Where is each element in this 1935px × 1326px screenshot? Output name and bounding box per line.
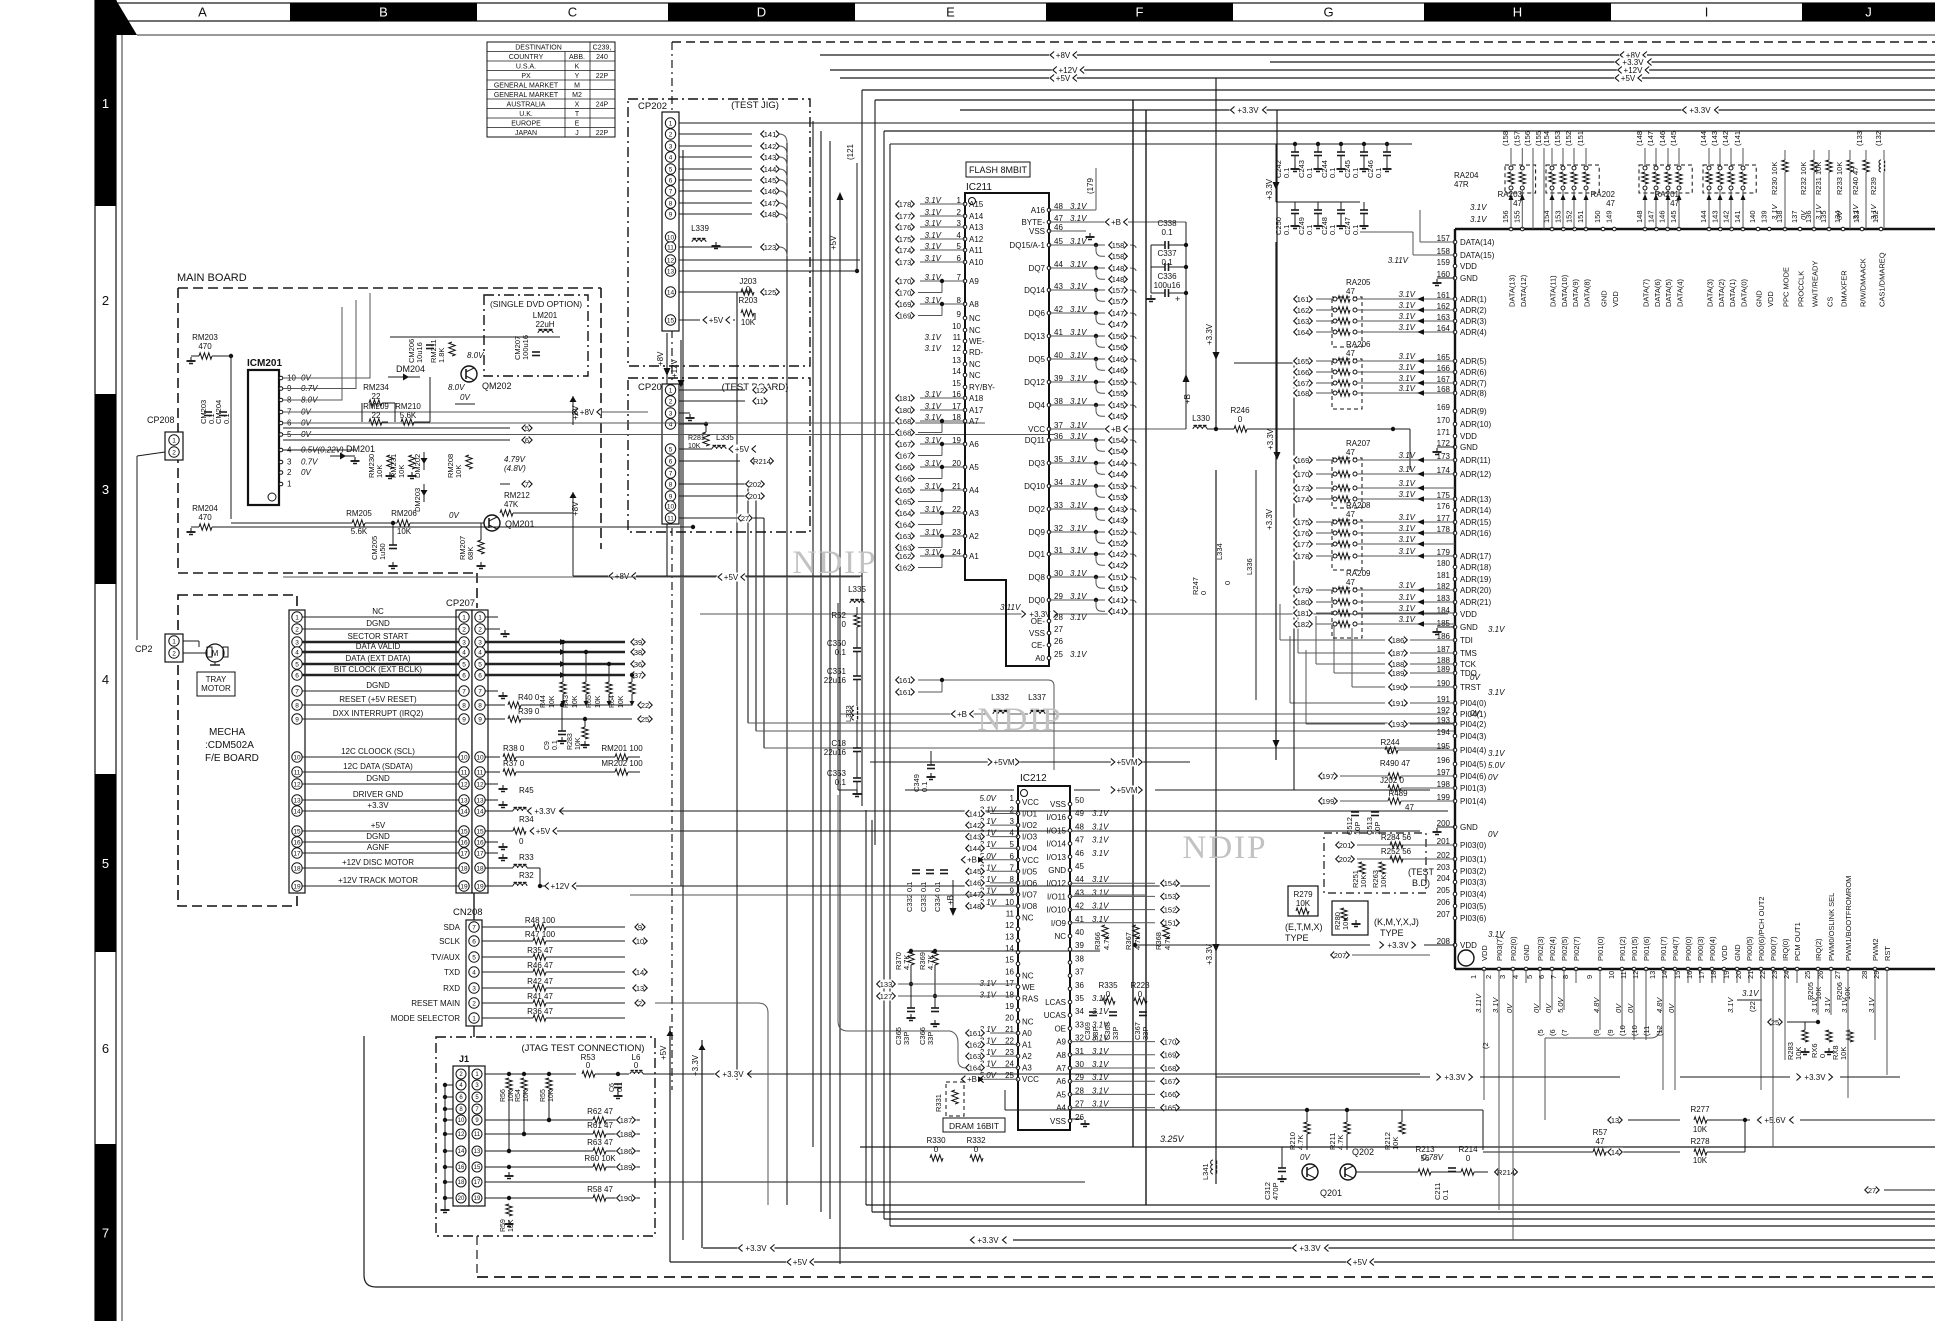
svg-text:0V: 0V (449, 511, 459, 520)
svg-text:23: 23 (1770, 971, 1779, 979)
svg-text:0V: 0V (1470, 709, 1480, 718)
svg-text:A8: A8 (969, 300, 979, 309)
svg-text:0V: 0V (301, 468, 311, 477)
svg-text:12: 12 (460, 781, 468, 788)
svg-text:J202 0: J202 0 (1380, 776, 1405, 785)
svg-text:+B: +B (957, 710, 967, 719)
svg-text:6: 6 (472, 938, 476, 945)
svg-text:145: 145 (1669, 210, 1678, 223)
svg-text:3.1V: 3.1V (1399, 479, 1416, 488)
svg-text:47: 47 (1346, 287, 1355, 296)
svg-text:20: 20 (1734, 971, 1743, 979)
svg-text:3.1V: 3.1V (1399, 384, 1416, 393)
svg-text:5: 5 (295, 661, 299, 668)
svg-text:PI02(7): PI02(7) (1572, 936, 1581, 961)
svg-text:8: 8 (669, 200, 673, 207)
svg-text:IRQ(2): IRQ(2) (1814, 938, 1823, 961)
svg-text:186: 186 (1392, 636, 1405, 645)
svg-text:10K: 10K (549, 695, 556, 708)
svg-text:3.1V: 3.1V (1399, 535, 1416, 544)
svg-text:154: 154 (1112, 436, 1125, 445)
svg-text:181: 181 (1437, 571, 1451, 580)
svg-text:PI01(2): PI01(2) (1618, 936, 1627, 961)
svg-text:+5V: +5V (1056, 74, 1071, 83)
svg-text:146: 146 (1112, 355, 1125, 364)
svg-text:68K: 68K (466, 547, 475, 560)
svg-text:R60 10K: R60 10K (584, 1154, 616, 1163)
svg-text:U.S.A.: U.S.A. (516, 63, 536, 70)
svg-text:CP207: CP207 (446, 598, 475, 609)
svg-text:16: 16 (293, 839, 301, 846)
svg-text:NC: NC (1022, 1017, 1034, 1026)
svg-text:DGND: DGND (366, 832, 390, 841)
svg-text:19: 19 (460, 883, 468, 890)
svg-text:L341: L341 (1201, 1163, 1210, 1180)
svg-text:+8V: +8V (656, 351, 665, 366)
svg-text:(6: (6 (1548, 1029, 1557, 1036)
svg-text:18: 18 (460, 865, 468, 872)
svg-text:OE-: OE- (1031, 617, 1046, 626)
svg-text:47: 47 (1606, 199, 1615, 208)
svg-text:NDIP: NDIP (1182, 830, 1267, 866)
svg-text:PI03(7): PI03(7) (1495, 936, 1504, 961)
svg-text:3.1V: 3.1V (1399, 490, 1416, 499)
svg-text:0V: 0V (460, 393, 470, 402)
svg-text:DM202: DM202 (413, 454, 422, 478)
svg-text:164: 164 (899, 509, 912, 518)
svg-text:+5V: +5V (536, 827, 551, 836)
svg-text:45: 45 (1075, 862, 1084, 871)
svg-text:181: 181 (899, 394, 912, 403)
svg-text:171: 171 (1437, 428, 1451, 437)
svg-text:161: 161 (1297, 295, 1310, 304)
svg-text:190: 190 (620, 1194, 633, 1203)
svg-text:R490 47: R490 47 (1380, 759, 1411, 768)
svg-text:R367: R367 (1124, 932, 1133, 950)
svg-text:BIT CLOCK (EXT BCLK): BIT CLOCK (EXT BCLK) (334, 665, 423, 674)
svg-text:3.11V: 3.11V (1000, 603, 1021, 612)
svg-text:6: 6 (102, 1041, 109, 1056)
svg-text:11: 11 (474, 1132, 481, 1138)
svg-text:VSS: VSS (1050, 1117, 1066, 1126)
svg-text:DM204: DM204 (396, 364, 425, 374)
svg-text:169: 169 (899, 300, 912, 309)
svg-text:14: 14 (476, 808, 484, 815)
svg-text:A1: A1 (969, 552, 979, 561)
svg-text:C18: C18 (831, 739, 846, 748)
svg-text:I/O8: I/O8 (1022, 902, 1038, 911)
svg-text:16: 16 (1005, 967, 1014, 976)
svg-text:7: 7 (1549, 975, 1558, 979)
svg-text:NC: NC (1022, 971, 1034, 980)
svg-text:MAIN BOARD: MAIN BOARD (177, 272, 247, 284)
svg-text:DQ8: DQ8 (1029, 573, 1046, 582)
svg-text:A8: A8 (1056, 1051, 1066, 1060)
svg-text:18: 18 (458, 1180, 465, 1186)
svg-text:16: 16 (476, 839, 484, 846)
svg-text:194: 194 (1437, 728, 1451, 737)
svg-text:18: 18 (293, 865, 301, 872)
svg-text:LM201: LM201 (533, 311, 558, 320)
svg-text:PI04(6): PI04(6) (1460, 772, 1487, 781)
svg-text:+3.3V: +3.3V (1265, 178, 1274, 200)
svg-text:(143: (143 (1710, 131, 1719, 146)
svg-text:9: 9 (478, 716, 482, 723)
svg-text:33P: 33P (1111, 1027, 1120, 1040)
svg-text:A9: A9 (1056, 1038, 1066, 1047)
svg-text:167: 167 (1164, 1077, 1177, 1086)
svg-text:10: 10 (458, 1118, 465, 1124)
svg-text:ADR(12): ADR(12) (1460, 470, 1491, 479)
svg-text:7: 7 (472, 924, 476, 931)
svg-text:7: 7 (669, 188, 673, 195)
svg-text:ADR(6): ADR(6) (1460, 368, 1487, 377)
svg-text:16: 16 (458, 1165, 465, 1171)
svg-text:RM201 100: RM201 100 (601, 744, 643, 753)
svg-text:165: 165 (899, 497, 912, 506)
svg-text:22: 22 (1758, 971, 1767, 979)
svg-text:161: 161 (899, 688, 912, 697)
svg-text:R41 47: R41 47 (527, 992, 553, 1001)
svg-text:18: 18 (476, 865, 484, 872)
svg-text:(4.8V): (4.8V) (504, 464, 526, 473)
svg-text:3.1V: 3.1V (1399, 363, 1416, 372)
svg-text:ADR(17): ADR(17) (1460, 552, 1491, 561)
svg-text:0V: 0V (1799, 210, 1808, 220)
svg-text:+3.3V: +3.3V (1444, 1073, 1466, 1082)
svg-text:170: 170 (899, 288, 912, 297)
svg-text:A12: A12 (969, 235, 984, 244)
svg-text:157: 157 (1112, 286, 1125, 295)
svg-text:+12V DISC MOTOR: +12V DISC MOTOR (342, 858, 414, 867)
svg-text:11: 11 (461, 769, 468, 776)
svg-text:PI04(7): PI04(7) (1671, 936, 1680, 961)
svg-text:0: 0 (1223, 581, 1232, 585)
svg-text:R203: R203 (738, 296, 758, 305)
svg-text:28: 28 (1860, 971, 1869, 979)
svg-text:8: 8 (1561, 975, 1570, 979)
svg-text:3.1V: 3.1V (1399, 513, 1416, 522)
svg-text:27: 27 (1868, 1186, 1876, 1195)
svg-text:A0: A0 (1022, 1029, 1032, 1038)
svg-text:1: 1 (1010, 794, 1015, 803)
svg-text:3: 3 (478, 639, 482, 646)
svg-text:139: 139 (1759, 210, 1768, 223)
svg-text:2: 2 (287, 468, 292, 477)
svg-text:150: 150 (1593, 210, 1602, 223)
svg-text:PI01(4): PI01(4) (1460, 797, 1487, 806)
svg-text:+5V: +5V (659, 1045, 668, 1060)
svg-text:+8V: +8V (1056, 51, 1071, 60)
svg-text:147: 147 (1112, 320, 1125, 329)
svg-text:R42 47: R42 47 (527, 977, 553, 986)
svg-text:CAS1/DMAREQ: CAS1/DMAREQ (1878, 252, 1887, 307)
svg-text:GND: GND (1755, 290, 1764, 307)
svg-text:151: 151 (1112, 584, 1125, 593)
svg-text:3.1V: 3.1V (1399, 312, 1416, 321)
svg-text:(148: (148 (1635, 131, 1644, 146)
svg-text:GND: GND (1460, 623, 1478, 632)
svg-text:ADR(14): ADR(14) (1460, 506, 1491, 515)
svg-text:12: 12 (293, 781, 301, 788)
svg-text:+5V: +5V (724, 573, 739, 582)
svg-text:202: 202 (1339, 855, 1352, 864)
svg-text:CS: CS (1826, 297, 1835, 307)
svg-text:0V: 0V (1470, 673, 1480, 682)
svg-text:VSS: VSS (1050, 800, 1066, 809)
svg-text:22P: 22P (596, 130, 609, 137)
svg-text:NC: NC (372, 607, 384, 616)
svg-text:L332: L332 (991, 693, 1009, 702)
svg-text:47: 47 (1596, 1137, 1605, 1146)
svg-text:175: 175 (899, 235, 912, 244)
svg-text:47: 47 (1346, 349, 1355, 358)
svg-text:(153: (153 (1553, 131, 1562, 146)
svg-text:157: 157 (1112, 297, 1125, 306)
svg-text:A7: A7 (1056, 1064, 1066, 1073)
svg-text:R33: R33 (519, 853, 534, 862)
svg-text:+5VM: +5VM (993, 758, 1014, 767)
svg-text:R284 56: R284 56 (1381, 833, 1412, 842)
svg-text:DRAM 16BIT: DRAM 16BIT (949, 1121, 999, 1131)
svg-text:+5V: +5V (793, 1258, 808, 1267)
svg-text:148: 148 (969, 902, 982, 911)
svg-text:R59: R59 (500, 1219, 507, 1232)
svg-text:33P: 33P (1141, 1027, 1150, 1040)
svg-text:ADR(8): ADR(8) (1460, 389, 1487, 398)
svg-text:15: 15 (293, 828, 301, 835)
svg-text:193: 193 (1392, 720, 1405, 729)
svg-text:I/O5: I/O5 (1022, 867, 1038, 876)
svg-text:COUNTRY: COUNTRY (509, 54, 544, 61)
svg-text:VSS: VSS (1029, 629, 1045, 638)
svg-text:161: 161 (899, 676, 912, 685)
svg-text:GND: GND (1733, 944, 1742, 961)
svg-text:10K: 10K (454, 465, 463, 478)
svg-text:K: K (575, 63, 580, 70)
svg-text:DATA(0): DATA(0) (1739, 278, 1748, 307)
svg-text:240: 240 (596, 54, 608, 61)
svg-text:133: 133 (880, 980, 893, 989)
svg-text:A3: A3 (969, 509, 979, 518)
svg-text:NC: NC (969, 371, 981, 380)
svg-text:13: 13 (1611, 1116, 1619, 1125)
svg-text:22: 22 (372, 392, 381, 401)
svg-text:DQ12: DQ12 (1024, 378, 1045, 387)
svg-text:24: 24 (1782, 971, 1791, 979)
svg-text:0.1: 0.1 (835, 648, 847, 657)
svg-text:PI01(0): PI01(0) (1596, 936, 1605, 961)
svg-text:(145: (145 (1669, 131, 1678, 146)
svg-text:12: 12 (458, 1132, 465, 1138)
svg-text:ADR(19): ADR(19) (1460, 575, 1491, 584)
svg-text:(SINGLE DVD OPTION): (SINGLE DVD OPTION) (490, 299, 582, 309)
svg-text:25: 25 (1803, 971, 1812, 979)
svg-text:22: 22 (372, 411, 381, 420)
svg-text:C332 0.1: C332 0.1 (905, 882, 914, 912)
svg-text:A4: A4 (1056, 1104, 1066, 1113)
svg-text:PI01(7): PI01(7) (1659, 936, 1668, 961)
svg-text:DQ4: DQ4 (1029, 401, 1046, 410)
svg-text:0.1: 0.1 (1351, 168, 1360, 178)
svg-text:19: 19 (1722, 971, 1731, 979)
svg-text:+8V: +8V (571, 405, 580, 420)
svg-text:12: 12 (1005, 921, 1014, 930)
svg-text:34: 34 (1075, 1007, 1084, 1016)
svg-text:35: 35 (1075, 994, 1084, 1003)
svg-text:PI03(6): PI03(6) (1460, 914, 1487, 923)
svg-text:12: 12 (1631, 971, 1640, 979)
svg-text:147: 147 (764, 199, 777, 208)
svg-text:R47 100: R47 100 (525, 930, 556, 939)
svg-text:4: 4 (102, 672, 109, 687)
svg-text:2: 2 (669, 398, 673, 405)
svg-text:17: 17 (1005, 979, 1014, 988)
svg-text:GND: GND (1522, 944, 1531, 961)
svg-text:142: 142 (1722, 210, 1731, 223)
svg-text:10: 10 (667, 503, 675, 510)
svg-text:(146: (146 (1658, 131, 1667, 146)
svg-text:R368: R368 (1154, 932, 1163, 950)
svg-text:R/W/DMAACK: R/W/DMAACK (1859, 258, 1868, 307)
svg-text:3: 3 (669, 410, 673, 417)
svg-text:7: 7 (462, 688, 466, 695)
svg-text:I: I (1705, 5, 1709, 20)
svg-text:5.0V: 5.0V (1488, 761, 1505, 770)
svg-text:168: 168 (899, 428, 912, 437)
svg-text:5.0V: 5.0V (980, 794, 997, 803)
svg-text:8: 8 (478, 702, 482, 709)
svg-text:47R: 47R (1454, 180, 1469, 189)
svg-text:PI02(0): PI02(0) (1509, 936, 1518, 961)
svg-text:I/O15: I/O15 (1046, 826, 1066, 835)
svg-text:7: 7 (669, 470, 673, 477)
svg-text:1u50: 1u50 (378, 543, 387, 560)
svg-text:IRQ(0): IRQ(0) (1781, 938, 1790, 961)
svg-text:14: 14 (667, 289, 675, 296)
svg-text:3.1V: 3.1V (1814, 204, 1823, 220)
svg-text:141: 141 (1733, 210, 1742, 223)
svg-text:19: 19 (474, 1196, 481, 1202)
svg-text:0V: 0V (1488, 830, 1498, 839)
svg-text:39: 39 (634, 638, 642, 647)
svg-text:2: 2 (669, 131, 673, 138)
svg-text:8: 8 (462, 702, 466, 709)
svg-text:3.25V: 3.25V (1160, 1134, 1185, 1144)
svg-text:170: 170 (1164, 1037, 1177, 1046)
svg-text:176: 176 (1297, 529, 1310, 538)
svg-text:204: 204 (1437, 874, 1451, 883)
svg-text:156: 156 (1112, 343, 1125, 352)
svg-text:149: 149 (1604, 210, 1613, 223)
svg-text:3: 3 (1498, 975, 1507, 979)
svg-text:17: 17 (476, 850, 484, 857)
svg-text:199: 199 (1322, 797, 1335, 806)
svg-text:10K: 10K (397, 465, 406, 478)
svg-text:17: 17 (293, 850, 301, 857)
svg-text:170: 170 (1437, 416, 1451, 425)
svg-text:ADR(16): ADR(16) (1460, 529, 1491, 538)
svg-text:ADR(20): ADR(20) (1460, 586, 1491, 595)
svg-text:167: 167 (899, 440, 912, 449)
svg-text:33P: 33P (902, 1032, 911, 1045)
svg-text:164: 164 (899, 520, 912, 529)
svg-text:3: 3 (287, 458, 292, 467)
svg-text:37: 37 (634, 671, 642, 680)
svg-text:L335: L335 (848, 585, 866, 594)
svg-text:A5: A5 (1056, 1090, 1066, 1099)
svg-text:15: 15 (1673, 971, 1682, 979)
svg-text:168: 168 (1164, 1064, 1177, 1073)
svg-text:R239: R239 (1869, 177, 1878, 195)
svg-text:169: 169 (899, 311, 912, 320)
svg-text:PI00(7): PI00(7) (1769, 936, 1778, 961)
svg-text:DQ6: DQ6 (1029, 309, 1046, 318)
svg-text:3.1V: 3.1V (1092, 809, 1109, 818)
svg-text:ADR(3): ADR(3) (1460, 317, 1487, 326)
svg-text:142: 142 (1112, 561, 1125, 570)
svg-text:3.1V: 3.1V (1770, 204, 1779, 220)
svg-text:1: 1 (295, 614, 299, 621)
svg-text:146: 146 (764, 187, 777, 196)
svg-text:10: 10 (293, 754, 301, 761)
svg-text:3.1V: 3.1V (1742, 989, 1759, 998)
svg-text:ADR(21): ADR(21) (1460, 598, 1491, 607)
svg-text:(9: (9 (1606, 1029, 1615, 1036)
svg-text:188: 188 (1392, 660, 1405, 669)
svg-text:3.1V: 3.1V (1488, 688, 1505, 697)
svg-text:R46 47: R46 47 (527, 961, 553, 970)
svg-text:46: 46 (1075, 849, 1084, 858)
svg-text:NC: NC (1022, 914, 1034, 923)
svg-text:A6: A6 (1056, 1077, 1066, 1086)
svg-text:PI03(2): PI03(2) (1460, 867, 1487, 876)
svg-text:144: 144 (1112, 470, 1125, 479)
svg-text:181: 181 (1297, 609, 1310, 618)
svg-text:22u16: 22u16 (824, 748, 847, 757)
svg-text:13: 13 (1648, 971, 1657, 979)
svg-text:A3: A3 (1022, 1064, 1032, 1073)
svg-text:189: 189 (620, 1163, 633, 1172)
svg-text:RA208: RA208 (1346, 501, 1371, 510)
svg-text:(7: (7 (1560, 1029, 1569, 1036)
svg-text:153: 153 (1112, 493, 1125, 502)
svg-text:A1: A1 (1022, 1041, 1032, 1050)
svg-text:+3.3V: +3.3V (1387, 941, 1409, 950)
svg-text:4: 4 (669, 421, 673, 428)
svg-text:R38 0: R38 0 (503, 744, 525, 753)
svg-text:CE-: CE- (1031, 641, 1045, 650)
svg-text:F/E BOARD: F/E BOARD (205, 753, 259, 764)
svg-text:C353: C353 (827, 769, 847, 778)
svg-text:I/O1: I/O1 (1022, 810, 1038, 819)
svg-text:0.1: 0.1 (1328, 225, 1337, 235)
svg-text:I/O4: I/O4 (1022, 844, 1038, 853)
svg-text:+3.3V: +3.3V (1804, 1073, 1826, 1082)
svg-text:DATA VALID: DATA VALID (356, 642, 401, 651)
svg-text:DGND: DGND (366, 681, 390, 690)
svg-text:3: 3 (669, 143, 673, 150)
svg-text:J: J (1865, 5, 1872, 20)
svg-text:R45: R45 (519, 786, 534, 795)
svg-text:0.1: 0.1 (1282, 225, 1291, 235)
svg-text:3.1V: 3.1V (980, 990, 997, 999)
svg-text:14: 14 (293, 808, 301, 815)
svg-text:40: 40 (1075, 928, 1084, 937)
svg-text:6: 6 (525, 436, 529, 445)
svg-text:DATA(11): DATA(11) (1549, 275, 1558, 307)
svg-text:25: 25 (641, 715, 649, 724)
